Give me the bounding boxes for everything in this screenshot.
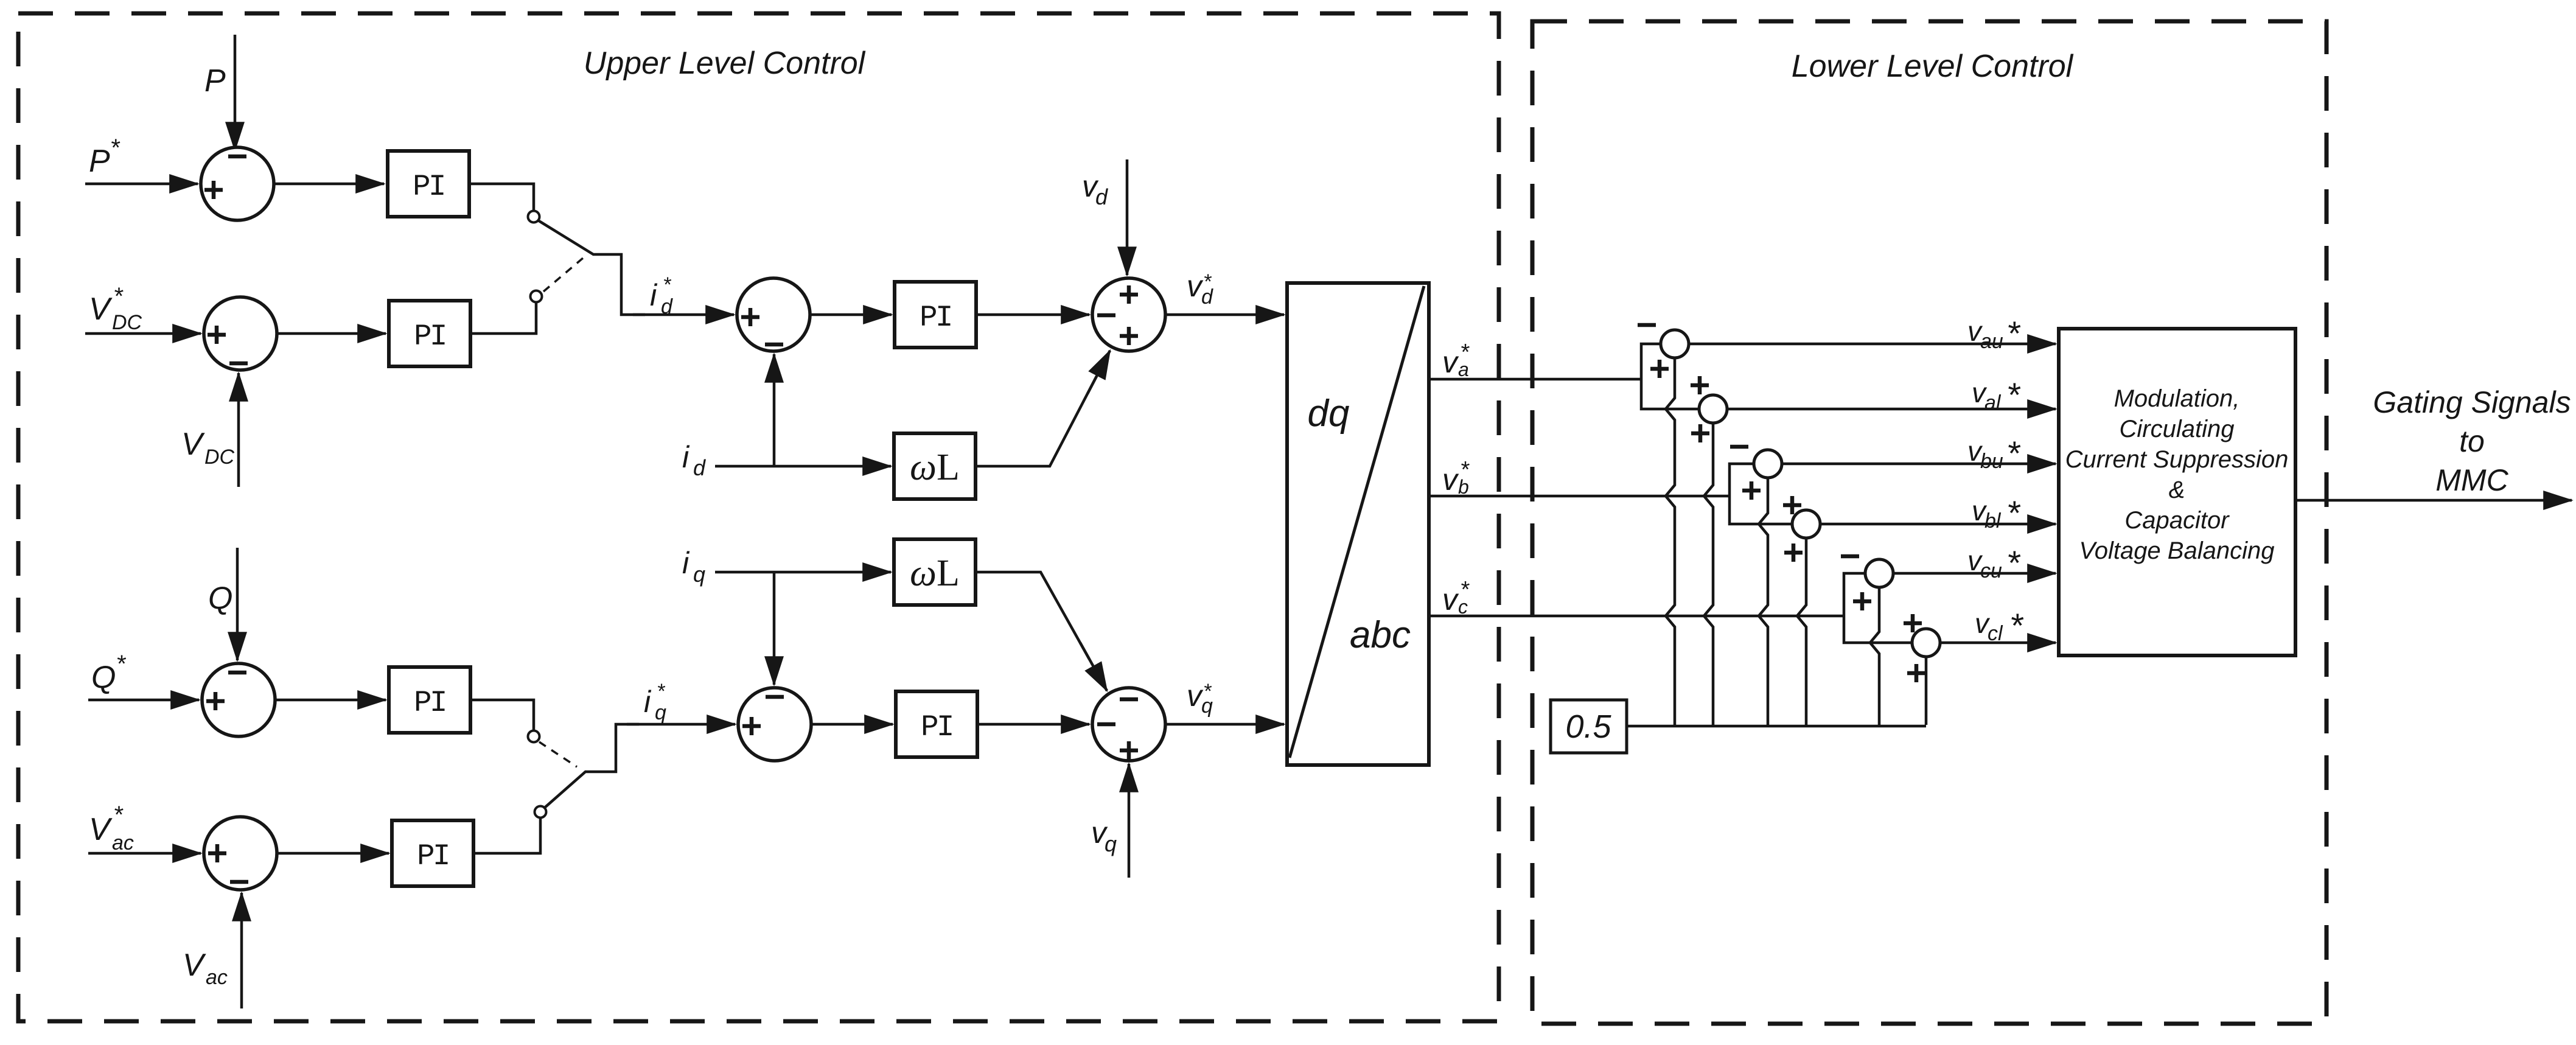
- node Vac input arrow: [240, 893, 243, 1008]
- svg-text:i: i: [682, 440, 690, 474]
- wire PI2 to lower contact: [470, 302, 536, 334]
- wire id to wL1: [715, 465, 891, 468]
- svg-text:i: i: [644, 685, 652, 719]
- label P*: [89, 135, 120, 179]
- svg-text:Voltage Balancing: Voltage Balancing: [2079, 537, 2275, 564]
- label P: [204, 63, 226, 99]
- wire id tap to S3 arrow: [773, 354, 776, 466]
- wire 0.5 riser to C-upper: [1870, 587, 1879, 725]
- wL block WL1: [894, 433, 976, 499]
- wire Q* input arrow: [88, 699, 199, 702]
- node VDC input arrow: [237, 373, 240, 487]
- svg-text:V: V: [89, 812, 113, 847]
- wire PI6 to lower contact: [473, 818, 540, 853]
- wire S5 to PI5: [276, 699, 386, 702]
- svg-text:*: *: [2006, 314, 2021, 352]
- label iq: [682, 546, 705, 587]
- svg-text:*: *: [1460, 340, 1470, 365]
- wire va* line: [1429, 378, 1641, 381]
- label vbl*: [1972, 494, 2021, 533]
- label vq: [1091, 816, 1117, 856]
- PI block PI6: [392, 820, 473, 886]
- wL block WL2: [894, 539, 976, 605]
- summing junction S8 (vq*): [1092, 688, 1165, 761]
- wire S6 to PI6: [278, 852, 389, 855]
- svg-text:Q: Q: [208, 581, 232, 616]
- wire bracket B: [1730, 464, 1792, 524]
- wire PI4 to S8: [977, 723, 1089, 726]
- wire switch to S7 arrow: [627, 723, 735, 726]
- PI block PI1: [388, 151, 469, 217]
- svg-text:V: V: [181, 427, 205, 462]
- label Vac*: [89, 802, 134, 855]
- svg-text:*: *: [113, 802, 124, 828]
- wire Vac* input arrow: [88, 852, 201, 855]
- switch SW2 upper contact: [528, 731, 540, 743]
- PI block PI2: [389, 301, 470, 366]
- label Gating Signals to MMC: [2373, 385, 2571, 497]
- label va*: [1442, 340, 1470, 380]
- wire PI5 to switch contact: [470, 700, 534, 730]
- wire P* input arrow: [85, 183, 198, 186]
- switch SW1 blade: [538, 220, 645, 315]
- svg-text:*: *: [2006, 494, 2021, 532]
- label iq*: [644, 680, 666, 724]
- wire vau* to modulation: [1689, 343, 2056, 346]
- label vc*: [1442, 577, 1470, 618]
- wire PI1 to switch contact: [469, 184, 534, 211]
- svg-text:al: al: [1984, 391, 2002, 414]
- svg-text:*: *: [1203, 680, 1212, 703]
- wire vcu* to modulation: [1893, 572, 2056, 575]
- label id: [682, 440, 706, 480]
- summing junction B-upper: [1730, 447, 1782, 500]
- svg-text:Upper Level Control: Upper Level Control: [584, 46, 866, 81]
- svg-text:Circulating: Circulating: [2120, 416, 2235, 442]
- switch SW1 lower contact: [531, 291, 542, 302]
- svg-text:q: q: [655, 701, 666, 724]
- node Q input arrow: [236, 548, 239, 660]
- svg-text:*: *: [1460, 457, 1470, 483]
- wire iq tap to S7 arrow: [773, 572, 776, 685]
- svg-text:cl: cl: [1988, 622, 2003, 645]
- summing junction A-lower: [1691, 376, 1727, 442]
- svg-text:PI: PI: [417, 839, 449, 873]
- summing junction S7 (iq): [738, 688, 811, 761]
- svg-text:bu: bu: [1980, 450, 2003, 473]
- PI block PI3: [895, 282, 976, 348]
- summing junction C-lower: [1904, 614, 1940, 682]
- wire bracket A: [1641, 344, 1699, 409]
- wire 0.5 riser to A-lower: [1704, 423, 1713, 725]
- svg-text:Gating Signals: Gating Signals: [2373, 385, 2571, 419]
- modulation block: [2059, 329, 2295, 655]
- wire wL1 to S4 diagonal: [976, 351, 1110, 466]
- label vq*: [1187, 679, 1213, 718]
- svg-text:v: v: [1442, 582, 1459, 617]
- PI block PI4: [896, 691, 977, 757]
- svg-text:ac: ac: [112, 831, 134, 855]
- wire vbl* to modulation: [1820, 523, 2056, 526]
- switch SW2 blade: [545, 724, 639, 808]
- switch SW2 lower contact: [535, 806, 546, 818]
- svg-text:PI: PI: [414, 320, 445, 354]
- wire VDC* input arrow: [85, 332, 201, 335]
- svg-text:PI: PI: [413, 170, 444, 204]
- node vq input arrow: [1128, 764, 1131, 878]
- svg-text:Modulation,: Modulation,: [2114, 385, 2240, 412]
- wire wL2 to S8 diagonal: [976, 572, 1107, 691]
- summing junction A-upper: [1638, 325, 1689, 378]
- summing junction B-lower: [1783, 496, 1820, 562]
- svg-text:*: *: [1203, 270, 1212, 293]
- svg-text:to: to: [2459, 424, 2485, 458]
- svg-text:&: &: [2169, 477, 2185, 503]
- node P input arrow: [234, 35, 237, 150]
- wire S2 to PI2: [278, 332, 386, 335]
- label vd: [1082, 169, 1108, 209]
- label vd*: [1187, 269, 1213, 309]
- svg-text:*: *: [663, 273, 672, 296]
- label Q: [208, 581, 232, 616]
- svg-text:MMC: MMC: [2435, 463, 2508, 497]
- svg-text:*: *: [113, 283, 124, 310]
- wire 0.5 riser to C-lower: [1925, 657, 1928, 725]
- switch SW2 dashed alternative: [539, 742, 577, 767]
- svg-text:q: q: [693, 562, 705, 587]
- summing junction S1 (P): [201, 147, 274, 220]
- dashed frame: Upper Level Control box: [18, 13, 1499, 1021]
- svg-text:*: *: [2009, 606, 2024, 645]
- label id*: [650, 273, 673, 318]
- svg-text:bl: bl: [1984, 509, 2002, 533]
- wire S3 to PI3: [810, 313, 892, 316]
- wire 0.5 riser to A-upper: [1666, 358, 1675, 725]
- label Lower Level Control: [1792, 49, 2074, 84]
- switch SW1 dashed alternative: [543, 258, 583, 292]
- svg-text:au: au: [1980, 330, 2003, 353]
- wire vb* line: [1429, 495, 1730, 498]
- label vbu*: [1967, 434, 2021, 473]
- wire PI3 to S4: [976, 313, 1089, 316]
- svg-text:*: *: [2006, 543, 2021, 582]
- svg-text:cu: cu: [1980, 559, 2002, 582]
- wire bracket C: [1844, 573, 1912, 643]
- svg-text:Lower Level Control: Lower Level Control: [1792, 49, 2074, 84]
- wire 0.5 riser to B-upper: [1759, 478, 1768, 725]
- wire 0.5 riser to B-lower: [1797, 538, 1806, 725]
- svg-text:DC: DC: [112, 311, 142, 334]
- wire vbu* to modulation: [1782, 463, 2056, 466]
- svg-text:i: i: [682, 546, 690, 580]
- svg-text:v: v: [1442, 463, 1459, 497]
- svg-text:V: V: [89, 292, 113, 327]
- summing junction S4 (vd*): [1092, 278, 1165, 351]
- wire val* to modulation: [1727, 408, 2056, 411]
- wire 0.5 bus: [1627, 725, 1926, 728]
- svg-text:*: *: [657, 680, 666, 703]
- svg-text:0.5: 0.5: [1565, 708, 1611, 745]
- label val*: [1972, 376, 2021, 414]
- wire vc* line: [1429, 615, 1844, 618]
- wire S8 to dq block: [1165, 723, 1284, 726]
- summing junction C-upper: [1841, 556, 1893, 610]
- gain block 0.5: [1551, 700, 1627, 753]
- svg-text:*: *: [2006, 434, 2021, 472]
- svg-text:PI: PI: [920, 301, 951, 335]
- svg-text:ac: ac: [206, 966, 228, 989]
- svg-text:V: V: [183, 948, 206, 983]
- PI block PI5: [389, 667, 470, 733]
- label VDC*: [89, 283, 142, 334]
- svg-text:ωL: ωL: [910, 553, 960, 594]
- wire S1 to PI1: [275, 183, 384, 186]
- dashed frame: Lower Level Control box: [1532, 21, 2326, 1024]
- wire vcl* to modulation: [1940, 641, 2056, 645]
- svg-text:v: v: [1442, 345, 1459, 379]
- svg-text:dq: dq: [1308, 393, 1350, 435]
- svg-text:*: *: [2006, 376, 2021, 414]
- svg-text:d: d: [1095, 184, 1108, 209]
- svg-text:PI: PI: [921, 710, 952, 744]
- dq-abc transform block: [1287, 283, 1429, 765]
- svg-text:i: i: [650, 278, 658, 312]
- svg-text:*: *: [1460, 577, 1470, 603]
- label Q*: [91, 651, 126, 695]
- node vd input arrow: [1126, 159, 1129, 275]
- svg-text:Capacitor: Capacitor: [2124, 507, 2230, 534]
- label vau*: [1967, 314, 2021, 353]
- svg-text:PI: PI: [414, 686, 445, 720]
- summing junction S3 (id): [737, 278, 810, 351]
- summing junction S5 (Q): [202, 663, 275, 736]
- summing junction S2 (VDC): [204, 297, 277, 370]
- wire iq to wL2: [715, 571, 891, 574]
- svg-text:d: d: [661, 295, 673, 318]
- svg-text:d: d: [693, 455, 706, 480]
- svg-text:P: P: [204, 63, 226, 99]
- svg-text:abc: abc: [1350, 614, 1411, 656]
- label Upper Level Control: [584, 46, 866, 81]
- wire gating signals arrow: [2295, 499, 2572, 502]
- label vb*: [1442, 457, 1470, 498]
- switch SW1 upper contact: [528, 211, 540, 223]
- label Vac: [183, 948, 228, 989]
- wire S7 to PI4: [811, 723, 893, 726]
- svg-text:ωL: ωL: [910, 447, 960, 488]
- label vcu*: [1967, 543, 2021, 582]
- summing junction S6 (Vac): [204, 817, 277, 890]
- svg-text:q: q: [1105, 831, 1117, 856]
- svg-text:DC: DC: [204, 446, 235, 469]
- wire S4 to dq block: [1165, 313, 1284, 316]
- label vcl*: [1975, 606, 2024, 645]
- svg-text:Current Suppression: Current Suppression: [2065, 446, 2289, 473]
- wire switch to S3 arrow: [633, 313, 734, 316]
- label VDC: [181, 427, 235, 469]
